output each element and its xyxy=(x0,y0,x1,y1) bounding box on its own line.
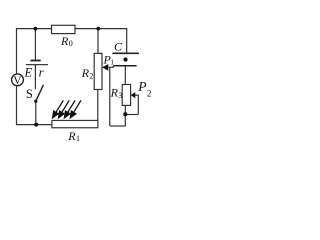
battery long plate xyxy=(26,64,48,66)
svg-text:R: R xyxy=(60,34,69,48)
wire left side upper xyxy=(16,28,18,75)
switch contact dot xyxy=(34,100,37,103)
voltmeter V xyxy=(12,74,24,86)
wire P2 loop bottom xyxy=(125,114,138,116)
wire P1 wiper tail xyxy=(109,66,114,68)
node dot top-right (R2 feed) xyxy=(96,27,100,31)
wire R2 feed from top xyxy=(97,29,99,54)
svg-text:1: 1 xyxy=(76,134,80,143)
wire switch to bottom xyxy=(35,101,37,124)
wire top xyxy=(17,28,127,30)
wire R3 bottom stub xyxy=(124,105,126,126)
svg-text:R: R xyxy=(81,66,90,80)
node dot below R3 xyxy=(123,112,127,116)
wire bottom-right horizontal xyxy=(110,125,125,127)
svg-text:P: P xyxy=(137,79,146,94)
wire bottom xyxy=(17,124,52,126)
svg-text:0: 0 xyxy=(69,39,73,48)
svg-text:2: 2 xyxy=(147,88,152,98)
svg-text:R: R xyxy=(110,85,119,99)
wire battery to switch xyxy=(34,65,36,90)
wire top-right corner down to capacitor xyxy=(126,28,128,53)
svg-text:2: 2 xyxy=(89,72,93,81)
switch S blade xyxy=(36,85,44,101)
svg-text:C: C xyxy=(114,39,123,53)
wire capacitor to R3 stub xyxy=(124,66,126,84)
battery short plate xyxy=(31,60,41,62)
node dot between capacitor plates xyxy=(123,58,127,62)
wire left side lower xyxy=(16,85,18,125)
svg-text:r: r xyxy=(39,64,45,79)
capacitor C top plate xyxy=(112,52,139,54)
resistor R0 xyxy=(52,25,76,33)
svg-text:R: R xyxy=(67,129,76,143)
svg-text:E: E xyxy=(24,65,33,79)
rheostat wiper arrow P2 xyxy=(131,92,136,98)
svg-text:S: S xyxy=(26,87,33,101)
resistor R3 (rheostat box) xyxy=(122,85,130,106)
node dot top-left (battery branch) xyxy=(34,27,38,31)
wire P2 tail xyxy=(135,95,139,114)
node dot bottom (switch branch) xyxy=(34,123,38,127)
wire R2 bottom to R1 xyxy=(97,89,99,120)
svg-text:3: 3 xyxy=(118,91,122,100)
capacitor C lower plate / wiper line xyxy=(113,65,136,67)
light arrows on R1 xyxy=(53,100,81,118)
resistor R2 (potentiometer box) xyxy=(94,53,102,89)
wire wiper node down (long vertical) xyxy=(109,67,111,126)
wire battery branch upper xyxy=(34,28,36,60)
svg-text:1: 1 xyxy=(110,57,114,66)
svg-text:V: V xyxy=(13,75,22,87)
resistor R1 (photoresistor box) xyxy=(52,120,98,127)
potentiometer wiper arrow P1 xyxy=(102,64,108,71)
